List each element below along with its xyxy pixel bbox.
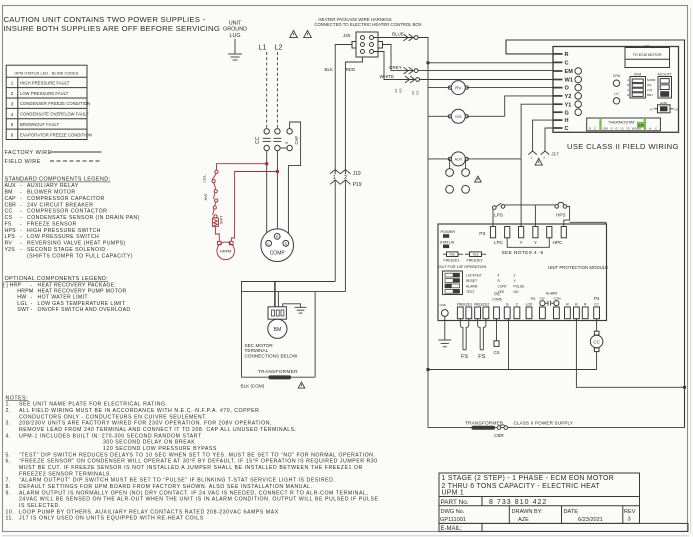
- svg-text:2: 2: [344, 175, 347, 181]
- svg-text:BM: BM: [5, 190, 13, 196]
- svg-text:AZE: AZE: [518, 517, 529, 523]
- svg-text:L1: L1: [259, 43, 267, 52]
- svg-text:-: -: [20, 234, 22, 240]
- svg-text:120 SECOND LOW PRESSURE BYPASS: 120 SECOND LOW PRESSURE BYPASS: [103, 446, 217, 452]
- svg-text:AUX: AUX: [455, 158, 463, 162]
- svg-text:SEE UNIT NAME PLATE FOR ELECTR: SEE UNIT NAME PLATE FOR ELECTRICAL RATIN…: [19, 402, 168, 408]
- svg-text:BLK (COM): BLK (COM): [241, 383, 265, 388]
- svg-text:FREEZE1: FREEZE1: [457, 302, 472, 306]
- svg-text:DWG No.: DWG No.: [441, 509, 465, 515]
- svg-text:R: R: [575, 302, 578, 306]
- svg-text:CLASS II POWER SUPPLY: CLASS II POWER SUPPLY: [514, 420, 574, 425]
- svg-text:R: R: [584, 302, 587, 306]
- svg-text:J17: J17: [551, 152, 559, 157]
- svg-text:3.: 3.: [6, 421, 11, 427]
- svg-text:CONT: CONT: [498, 284, 507, 288]
- svg-text:TEST: TEST: [466, 290, 474, 294]
- svg-text:Y1: Y1: [620, 126, 624, 130]
- svg-text:L2: L2: [275, 43, 283, 52]
- svg-text:P6: P6: [494, 291, 500, 296]
- svg-text:COMP: COMP: [270, 251, 286, 257]
- svg-text:J13: J13: [394, 88, 398, 93]
- svg-text:HPC: HPC: [553, 240, 563, 245]
- svg-text:BW1: BW1: [647, 93, 653, 97]
- svg-text:BLUE: BLUE: [392, 31, 404, 36]
- svg-text:LO: LO: [614, 92, 619, 96]
- svg-text:Y2S: Y2S: [455, 115, 463, 119]
- svg-text:G: G: [506, 302, 509, 306]
- svg-text:J30: J30: [343, 33, 351, 38]
- svg-text:Y2: Y2: [565, 94, 572, 100]
- svg-text:P13: P13: [399, 88, 403, 93]
- svg-text:ALARM OUTPUT IS NORMALLY OPEN: ALARM OUTPUT IS NORMALLY OPEN (NO) DRY C…: [19, 490, 368, 496]
- svg-text:24V: 24V: [539, 297, 544, 301]
- svg-text:HIGH PRESSURE FAULT: HIGH PRESSURE FAULT: [20, 81, 70, 86]
- svg-text:UPM 1: UPM 1: [442, 490, 465, 497]
- svg-text:MUST BE CUT. IF FREEZE SENSOR: MUST BE CUT. IF FREEZE SENSOR IS NOT INS…: [19, 465, 363, 471]
- svg-text:Y: Y: [534, 240, 537, 245]
- svg-text:C: C: [565, 61, 569, 67]
- svg-text:COMPRESSOR CAPACITOR: COMPRESSOR CAPACITOR: [27, 196, 105, 202]
- svg-text:2: 2: [11, 91, 14, 96]
- svg-text:CFM: CFM: [613, 74, 620, 78]
- svg-text:“FREEZE SENSOR” ON CONDENSER W: “FREEZE SENSOR” ON CONDENSER WILL OPERAT…: [19, 459, 378, 465]
- svg-text:NO: NO: [514, 290, 519, 294]
- svg-text:NORM: NORM: [647, 78, 656, 82]
- svg-text:UNIT PROTECTION MODULE: UNIT PROTECTION MODULE: [548, 265, 608, 270]
- svg-text:WHITE: WHITE: [380, 74, 395, 79]
- svg-text:LOD: LOD: [526, 302, 533, 306]
- svg-text:SEE NOTES 4 -9: SEE NOTES 4 -9: [502, 250, 544, 256]
- svg-text:GROUND: GROUND: [223, 27, 247, 33]
- svg-text:CBR: CBR: [5, 202, 17, 208]
- svg-text:6.: 6.: [6, 459, 11, 465]
- svg-text:COM6: COM6: [492, 297, 502, 301]
- svg-text:H: H: [565, 118, 569, 124]
- svg-text:UNIT: UNIT: [229, 21, 242, 27]
- svg-text:USE CLASS II FIELD WIRING: USE CLASS II FIELD WIRING: [567, 142, 679, 151]
- svg-text:FIELD WIRE: FIELD WIRE: [5, 159, 41, 165]
- svg-text:TRANSFORMER: TRANSFORMER: [465, 420, 504, 425]
- svg-text:-: -: [31, 307, 33, 313]
- svg-text:208/230V UNITS ARE FACTORY WIR: 208/230V UNITS ARE FACTORY WIRED FOR 230…: [19, 421, 272, 427]
- svg-text:R29: R29: [473, 253, 479, 257]
- svg-text:W1/BO: W1/BO: [632, 126, 642, 130]
- svg-text:EM: EM: [603, 126, 608, 130]
- svg-text:-: -: [20, 247, 22, 253]
- svg-text:D: D: [627, 93, 629, 97]
- svg-text:HPS: HPS: [556, 213, 565, 218]
- svg-text:9.: 9.: [6, 490, 11, 496]
- svg-text:FREEZE2: FREEZE2: [467, 259, 483, 263]
- svg-text:CC: CC: [594, 302, 599, 306]
- svg-text:COMPRESSOR CONTACTOR: COMPRESSOR CONTACTOR: [27, 209, 107, 215]
- svg-text:C: C: [565, 126, 569, 132]
- svg-text:P4: P4: [594, 296, 600, 301]
- svg-text:LUG: LUG: [229, 33, 240, 39]
- svg-text:DATE: DATE: [564, 509, 579, 515]
- svg-text:J19: J19: [353, 171, 361, 177]
- svg-text:24VAC WILL BE SENSED ON THE AL: 24VAC WILL BE SENSED ON THE ALR-OUT WHEN…: [19, 497, 379, 503]
- svg-text:BM: BM: [274, 327, 282, 333]
- svg-text:CAP: CAP: [294, 136, 299, 145]
- svg-text:J17 IS ONLY USED ON UNITS EQUI: J17 IS ONLY USED ON UNITS EQUIPPED WITH …: [19, 516, 204, 522]
- svg-text:BLK: BLK: [325, 67, 334, 72]
- svg-text:-: -: [20, 183, 22, 189]
- svg-text:Y2: Y2: [626, 126, 630, 130]
- svg-text:2.: 2.: [6, 408, 11, 414]
- svg-text:CAP: CAP: [5, 196, 17, 202]
- svg-text:-: -: [20, 215, 22, 221]
- svg-text:3: 3: [11, 101, 14, 106]
- svg-text:ALARM: ALARM: [546, 292, 558, 296]
- svg-text:RED: RED: [346, 67, 356, 72]
- svg-text:1: 1: [11, 81, 14, 86]
- svg-text:HW: HW: [203, 194, 208, 201]
- svg-text:LGL: LGL: [202, 174, 207, 182]
- svg-text:R30: R30: [449, 253, 455, 257]
- svg-text:C: C: [267, 242, 270, 246]
- svg-text:R: R: [565, 52, 569, 58]
- svg-text:O: O: [565, 86, 570, 92]
- svg-text:PART No.: PART No.: [441, 499, 469, 506]
- svg-text:C: C: [516, 302, 519, 306]
- svg-text:5.: 5.: [6, 452, 11, 458]
- svg-text:INSURE BOTH SUPPLIES ARE OFF B: INSURE BOTH SUPPLIES ARE OFF BEFORE SERV…: [4, 24, 221, 33]
- svg-text:10.: 10.: [6, 509, 15, 515]
- svg-text:300 SECOND DELAY ON BREAK: 300 SECOND DELAY ON BREAK: [103, 440, 195, 446]
- svg-text:8 733 810 422: 8 733 810 422: [489, 499, 547, 506]
- svg-text:CC: CC: [593, 340, 599, 345]
- svg-text:P5: P5: [531, 297, 535, 301]
- svg-text:CS: CS: [5, 215, 13, 221]
- svg-text:“TEST” DIP SWITCH REDUCES DELA: “TEST” DIP SWITCH REDUCES DELAYS TO 10 S…: [19, 452, 375, 458]
- svg-text:FREEZE1: FREEZE1: [444, 259, 460, 263]
- svg-text:NOTES:: NOTES:: [6, 395, 29, 401]
- svg-text:REV: REV: [624, 509, 636, 515]
- svg-text:C: C: [655, 126, 657, 130]
- svg-text:4: 4: [11, 112, 14, 117]
- svg-text:-: -: [20, 190, 22, 196]
- svg-text:G: G: [565, 110, 569, 116]
- svg-text:IS SELECTED.: IS SELECTED.: [19, 503, 61, 509]
- svg-text:FREEZE2 SENSOR TERMINALS.: FREEZE2 SENSOR TERMINALS.: [19, 471, 112, 477]
- svg-text:REVERSING VALVE (HEAT PUMPS): REVERSING VALVE (HEAT PUMPS): [27, 241, 126, 247]
- svg-text:UPM-1 INCLUDES BUILT IN: 270-: UPM-1 INCLUDES BUILT IN: 270-300 SECOND …: [19, 433, 202, 439]
- svg-text:-: -: [20, 221, 22, 227]
- svg-text:P12: P12: [416, 90, 420, 95]
- svg-text:-: -: [20, 202, 22, 208]
- svg-text:TRANSFORMER: TRANSFORMER: [258, 369, 298, 375]
- svg-text:FACTORY WIRE: FACTORY WIRE: [5, 150, 52, 156]
- svg-text:ACOLOT: ACOLOT: [658, 72, 672, 76]
- svg-text:LPC: LPC: [494, 240, 504, 245]
- svg-text:-: -: [20, 241, 22, 247]
- svg-text:LPS: LPS: [494, 213, 503, 218]
- svg-text:CAUTION UNIT CONTAINS TWO POWE: CAUTION UNIT CONTAINS TWO POWER SUPPLIES…: [4, 15, 206, 24]
- svg-text:P19: P19: [353, 182, 362, 188]
- svg-text:GP111001: GP111001: [440, 517, 466, 523]
- svg-text:FS: FS: [461, 354, 468, 360]
- svg-text:8.: 8.: [6, 484, 11, 490]
- svg-text:DEFAULT SETTINGS FOR UPM BOARD: DEFAULT SETTINGS FOR UPM BOARD FROM FACT…: [19, 484, 313, 490]
- svg-text:THERMOSTAT: THERMOSTAT: [608, 119, 636, 124]
- svg-text:CONDENSATE OVERFLOW FAULT: CONDENSATE OVERFLOW FAULT: [20, 112, 89, 117]
- svg-text:A: A: [627, 78, 629, 82]
- svg-text:AUX: AUX: [5, 183, 17, 189]
- svg-text:6/23/2021: 6/23/2021: [578, 517, 603, 523]
- svg-text:ON/OFF SWITCH AND OVERLOAD: ON/OFF SWITCH AND OVERLOAD: [38, 307, 131, 313]
- svg-text:LOW PRESSURE FAULT: LOW PRESSURE FAULT: [20, 91, 69, 96]
- svg-text:GREY: GREY: [389, 65, 402, 70]
- svg-text:2: 2: [514, 273, 516, 277]
- svg-text:HPS: HPS: [5, 228, 17, 234]
- svg-text:1.: 1.: [6, 402, 11, 408]
- svg-text:SWT: SWT: [219, 215, 224, 224]
- svg-text:LOW PRESSURE SWITCH: LOW PRESSURE SWITCH: [27, 234, 99, 240]
- svg-text:FREEZE2: FREEZE2: [474, 302, 489, 306]
- svg-text:4.: 4.: [6, 433, 11, 439]
- svg-text:2 THRU 6 TONS CAPACITY - ELECT: 2 THRU 6 TONS CAPACITY - ELECTRIC HEAT: [442, 483, 601, 490]
- svg-text:E-MAIL:: E-MAIL:: [441, 526, 463, 532]
- svg-text:1 STAGE (2 STEP) - 1 PHASE - E: 1 STAGE (2 STEP) - 1 PHASE - ECM EON MOT…: [442, 475, 614, 482]
- svg-text:RV: RV: [455, 85, 461, 90]
- svg-text:P3: P3: [479, 231, 485, 237]
- svg-text:7.: 7.: [6, 478, 11, 484]
- svg-text:CBR: CBR: [494, 433, 504, 438]
- svg-text:Y: Y: [520, 240, 523, 245]
- svg-text:-: -: [20, 228, 22, 234]
- svg-text:24V CIRCUIT BREAKER: 24V CIRCUIT BREAKER: [27, 202, 93, 208]
- svg-text:W1: W1: [565, 78, 573, 84]
- svg-text:GND: GND: [440, 303, 446, 307]
- svg-text:FREEZE SENSOR: FREEZE SENSOR: [27, 221, 77, 227]
- svg-text:ALL FIELD WIRING MUST BE IN AC: ALL FIELD WIRING MUST BE IN ACCORDANCE W…: [19, 408, 259, 414]
- svg-text:HI2: HI2: [647, 83, 652, 87]
- svg-text:HRPM: HRPM: [220, 250, 231, 254]
- svg-text:-: -: [20, 209, 22, 215]
- svg-text:-: -: [20, 196, 22, 202]
- svg-text:RV: RV: [5, 241, 13, 247]
- svg-text:CONDENSATE SENSOR (IN DRAIN PA: CONDENSATE SENSOR (IN DRAIN PAN): [27, 215, 140, 221]
- svg-text:AUXILIARY RELAY: AUXILIARY RELAY: [27, 183, 79, 189]
- svg-text:J12: J12: [411, 90, 415, 95]
- svg-text:LOCKOUT: LOCKOUT: [466, 273, 482, 277]
- svg-text:H: H: [649, 126, 651, 130]
- svg-text:11.: 11.: [6, 516, 14, 522]
- svg-text:SWT: SWT: [17, 307, 30, 313]
- svg-text:CONNECTIONS BELOW: CONNECTIONS BELOW: [245, 353, 298, 358]
- svg-text:STANDARD COMPONENTS LEGEND:: STANDARD COMPONENTS LEGEND:: [5, 177, 111, 183]
- svg-text:HIGH PRESSURE SWITCH: HIGH PRESSURE SWITCH: [27, 228, 101, 234]
- svg-text:FS: FS: [5, 221, 12, 227]
- svg-text:HUM: HUM: [660, 101, 667, 105]
- svg-text:OUT FOR 13F OPERATION: OUT FOR 13F OPERATION: [439, 265, 487, 269]
- svg-text:RESET: RESET: [466, 279, 477, 283]
- svg-text:CC: CC: [255, 136, 261, 144]
- svg-text:ALARM: ALARM: [466, 284, 478, 288]
- svg-text:CONDENSER FREEZE CONDITION: CONDENSER FREEZE CONDITION: [20, 101, 90, 106]
- svg-text:5: 5: [11, 122, 14, 127]
- svg-text:LPS: LPS: [5, 234, 16, 240]
- svg-text:LO3: LO3: [647, 88, 653, 92]
- svg-text:R: R: [276, 235, 279, 239]
- svg-text:CFM: CFM: [634, 72, 642, 76]
- svg-text:CC: CC: [5, 209, 13, 215]
- svg-text:LOOP PUMP BY OTHERS. AUXILIARY: LOOP PUMP BY OTHERS. AUXILIARY RELAY CON…: [19, 509, 279, 515]
- svg-text:6: 6: [11, 133, 14, 138]
- svg-text:CONNECTED TO ELECTRIC HEATER C: CONNECTED TO ELECTRIC HEATER CONTROL BOX: [314, 22, 421, 27]
- svg-text:(SHIFTS COMPR TO FULL CAPACITY: (SHIFTS COMPR TO FULL CAPACITY): [27, 253, 133, 259]
- svg-text:UPM STATUS LED - BLINK CODES: UPM STATUS LED - BLINK CODES: [14, 72, 78, 76]
- svg-text:C: C: [594, 126, 596, 130]
- svg-text:EVAPORATOR FREEZE CONDITION: EVAPORATOR FREEZE CONDITION: [20, 132, 92, 137]
- svg-text:STATUS: STATUS: [440, 239, 455, 244]
- svg-text:DRAWN BY:: DRAWN BY:: [512, 509, 544, 515]
- svg-text:FS: FS: [478, 354, 485, 360]
- svg-text:4: 4: [498, 273, 500, 277]
- svg-text:COM: COM: [554, 297, 562, 301]
- svg-text:3: 3: [628, 517, 631, 523]
- svg-text:CONDUCTORS ONLY - CONDUCTEURS: CONDUCTORS ONLY - CONDUCTEURS EN CUIVRE …: [19, 414, 207, 420]
- svg-text:Y1: Y1: [565, 102, 572, 108]
- svg-text:“ALARM OUTPUT” DIP SWITCH MUST: “ALARM OUTPUT” DIP SWITCH MUST BE SET TO…: [19, 478, 335, 484]
- svg-text:EM: EM: [565, 69, 574, 75]
- svg-text:REMOVE LEAD FROM 240 TERMINAL: REMOVE LEAD FROM 240 TERMINAL AND CONNEC…: [19, 427, 297, 433]
- svg-text:NO: NO: [675, 108, 679, 112]
- svg-text:R: R: [589, 126, 591, 130]
- svg-text:R: R: [566, 302, 569, 306]
- svg-text:HI: HI: [650, 108, 653, 112]
- svg-text:OPTIONAL COMPONENTS LEGEND:: OPTIONAL COMPONENTS LEGEND:: [5, 276, 109, 282]
- svg-text:CS: CS: [493, 350, 499, 355]
- svg-text:B: B: [627, 83, 629, 87]
- svg-text:C: C: [627, 88, 629, 92]
- svg-text:1: 1: [333, 175, 336, 181]
- svg-text:PULSE: PULSE: [514, 284, 526, 288]
- svg-text:BROWNOUT FAULT: BROWNOUT FAULT: [20, 122, 60, 127]
- svg-text:SECOND STAGE SOLENOID: SECOND STAGE SOLENOID: [27, 247, 106, 253]
- svg-text:TO ECM MOTOR: TO ECM MOTOR: [633, 53, 662, 57]
- svg-text:Y2S: Y2S: [5, 247, 16, 253]
- svg-text:BLOWER MOTOR: BLOWER MOTOR: [27, 190, 76, 196]
- svg-text:POWER: POWER: [441, 229, 456, 234]
